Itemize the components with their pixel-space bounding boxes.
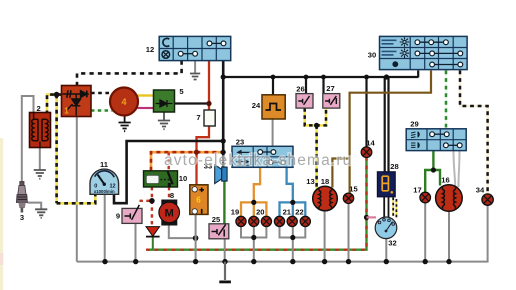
wire: grey, relay 24 to turnswitch 23 <box>272 119 274 146</box>
wire: grey, CDI 1 bottom down left end of bottom bus <box>76 116 78 261</box>
wire: grey stub bus to main ground <box>224 262 226 280</box>
tachometer 11 <box>90 160 119 194</box>
wire: diode lead to green bus <box>152 237 154 250</box>
wire: yellow, generator 4 to rectifier 5 <box>138 94 154 96</box>
node: junction dot orange line on black bus <box>221 150 226 155</box>
node: junction dot red wire on orange line <box>194 150 199 155</box>
wire: grey, lamp 17 to bus <box>424 203 426 262</box>
svg-text:15: 15 <box>349 185 358 194</box>
wire: grey, switch 9 to bus <box>135 223 137 261</box>
turn lamp 22 <box>300 216 310 226</box>
starter motor 8 <box>159 191 180 226</box>
generator 4 <box>110 88 138 116</box>
svg-text:26: 26 <box>296 85 304 94</box>
turn lamp 19 <box>236 216 246 226</box>
wire: light grey pair, beamswitch 29 to headlamp 16 <box>454 151 456 186</box>
scan artifact left edge strip <box>0 138 3 290</box>
ground: below ignition coil 2 <box>34 170 46 179</box>
wire: black-white dashed, lightswitch 30 to lamp 34 <box>460 71 488 195</box>
tail lamp 13/18 <box>306 177 337 211</box>
node: junction dot rectifier output on red wire <box>206 101 211 106</box>
svg-text:M: M <box>165 208 174 220</box>
svg-text:14: 14 <box>366 139 375 148</box>
svg-text:13: 13 <box>306 177 314 186</box>
node: junction dot on red-dash wire <box>149 198 155 204</box>
wire: pink, to connector 32 <box>367 216 377 218</box>
turn lamp 21b <box>287 216 297 226</box>
wire: black main vertical bus, switch 12 to horn 33 <box>222 61 225 167</box>
indicator lamp 14 <box>361 139 375 158</box>
wire: grey return right turn lamps to bus <box>280 226 306 261</box>
CDI unit 1 <box>62 86 92 117</box>
wire: black, rectifier 5 output to red node <box>175 102 210 104</box>
svg-text:19: 19 <box>231 208 239 217</box>
wire: grey, battery 6 bottom to bus <box>195 214 197 261</box>
svg-text:24: 24 <box>252 101 261 110</box>
turn signal switch 23 <box>232 138 293 168</box>
node: junction dot black bus y77 at 223 <box>221 74 226 79</box>
svg-text:4: 4 <box>121 97 126 107</box>
light switch 30 <box>368 36 467 69</box>
svg-text:18: 18 <box>321 177 329 186</box>
wire: black top distribution line y=77 with stubs to 24,26,27,14,28,30 <box>223 71 418 173</box>
wire: black pair, display 28 to connector 32 <box>384 197 388 218</box>
wire: red-white dashed, energizer 10 right to motor 8 <box>167 152 170 201</box>
lamp 34 <box>476 186 494 206</box>
switch 25 <box>209 215 229 239</box>
wire: grey, switch 12 to ground <box>194 61 196 74</box>
switch 9 <box>116 205 142 224</box>
svg-text:7: 7 <box>196 113 200 122</box>
rectifier 5 <box>154 87 185 112</box>
svg-text:28: 28 <box>390 162 398 171</box>
wire: black line y=141 from bus to tachometer 11 <box>114 141 223 203</box>
wire: orange, turnswitch 23 to left turn lamps 19-20 <box>241 167 266 216</box>
wire: yellow-black dashed net: coil 2, CDI 1, down to tachometer 11 <box>47 95 95 204</box>
turn lamp 20 <box>261 216 271 226</box>
wire: grey, lamp 18 to bus <box>324 211 326 262</box>
svg-text:11: 11 <box>100 160 109 169</box>
wire: grey, coil 2 top to spark plug 3 <box>22 96 34 182</box>
wire: green, beamswitch 29 to lamp 17 and headlamp 16 <box>425 151 440 193</box>
wire: blue, turnswitch 23 to right turn lamps 21-22 <box>280 167 306 216</box>
ground: beside spark plug 3 <box>35 209 47 218</box>
wire: grey, headlamp 16 to bus <box>448 211 450 261</box>
node: junction dot motor-battery <box>193 235 199 241</box>
ground: below rectifier 5 <box>158 112 170 129</box>
wire: magenta, generator 4 to rectifier 5 <box>138 107 154 109</box>
node: bus junction dots <box>102 259 451 264</box>
svg-text:16: 16 <box>441 176 449 185</box>
ground: below switch 12 <box>190 74 200 80</box>
wire: green-white dashed, CDI 1 to generator 4 <box>91 109 113 111</box>
battery 6 <box>190 185 208 215</box>
svg-text:6: 6 <box>196 196 201 205</box>
wire: grey, coil 2 bottom to ground <box>39 148 41 171</box>
wire: green-white dashed, lightswitch 30 to beamswitch 29 <box>445 71 448 130</box>
svg-text:27: 27 <box>326 84 334 93</box>
svg-text:22: 22 <box>295 208 303 217</box>
relay 24 <box>252 95 285 119</box>
ignition switch 12 <box>146 36 231 60</box>
svg-text:avto-elektrika-shema.ru: avto-elektrika-shema.ru <box>164 152 352 169</box>
svg-text:9: 9 <box>116 212 120 221</box>
svg-text:29: 29 <box>410 120 418 129</box>
node: junction dot on yellow wire at CDI left <box>54 92 60 98</box>
switch 27 <box>323 84 340 108</box>
ground: main bottom ground <box>219 281 231 284</box>
wire: red, switch 12 down to fuse 7 and battery 6 <box>197 61 210 185</box>
svg-text:3: 3 <box>20 213 24 222</box>
turn lamp 19b <box>249 216 259 226</box>
horn 33 <box>204 162 227 184</box>
svg-text:10: 10 <box>179 174 187 183</box>
wire: black-white dashed, CDI 1 to generator 4 <box>91 92 112 94</box>
wire: black-white dashed, switch 12 to CDI unit 1 top <box>77 61 182 87</box>
node: junction dots on top black line <box>271 75 276 80</box>
headlamp 16 <box>436 176 463 212</box>
svg-text:2: 2 <box>36 104 40 113</box>
svg-text:1: 1 <box>64 106 69 116</box>
svg-text:17: 17 <box>413 186 421 195</box>
wire: yellow-black dashed, switches 26/27 to lamp 13/18 <box>305 108 326 190</box>
svg-text:23: 23 <box>236 138 244 147</box>
turn lamp 21 <box>274 216 284 226</box>
wire: red-white dashed, energizer 10 left to diode and switch 9 <box>140 187 152 227</box>
switch 26 <box>296 85 313 109</box>
svg-text:34: 34 <box>476 186 485 195</box>
digital display 28 <box>377 162 398 197</box>
wire: grey, lamp 15 to bus <box>348 203 350 261</box>
svg-text:x1000/min: x1000/min <box>94 189 115 194</box>
energizer unit 10 <box>144 171 188 187</box>
wire: grey, spark plug 3 to ground <box>28 203 42 210</box>
wire: grey, tachometer 11 to bus <box>104 194 106 261</box>
wire: grey, switch 25 to bus <box>224 239 226 262</box>
svg-text:12: 12 <box>146 45 154 54</box>
svg-text:20: 20 <box>256 208 264 217</box>
wire: grey, connector 32 to bus <box>385 238 387 261</box>
beam switch 29 <box>406 120 466 151</box>
node: junction dot black bus y141 at 223 <box>221 138 226 143</box>
node: junction dot pink wire on green-red wire <box>364 215 369 220</box>
wire: grey, motor 8 bottom to battery drop <box>169 225 196 238</box>
svg-text:30: 30 <box>368 51 376 60</box>
wire: grey return left turn lamps to bus <box>241 226 266 261</box>
svg-text:8: 8 <box>170 191 174 200</box>
diode near motor <box>146 227 160 237</box>
spark plug 3 <box>16 182 27 223</box>
lamp 15 <box>343 185 358 204</box>
wire: brown, lightswitch 30 to lamps 15 and 18 <box>332 71 431 194</box>
fuse 7 <box>196 110 215 126</box>
svg-text:32: 32 <box>388 239 396 248</box>
svg-text:21: 21 <box>283 208 292 217</box>
wire: orange-red dashed line from energizer 10 to horn node <box>151 152 223 171</box>
wire: green, horn 33 to switch 25 <box>223 181 225 225</box>
lamp 17 <box>413 186 430 203</box>
svg-text:25: 25 <box>212 215 221 224</box>
wire: yellow-black dashed pair, display 28 to connector 32 <box>393 198 396 218</box>
connector 32 <box>375 217 397 248</box>
ground: below generator 4 <box>119 116 131 132</box>
ignition coil 2 <box>30 104 51 148</box>
wire: grey bottom bus <box>77 205 488 262</box>
wire: green-red dashed bottom bus up to lamp 14 <box>146 158 367 250</box>
